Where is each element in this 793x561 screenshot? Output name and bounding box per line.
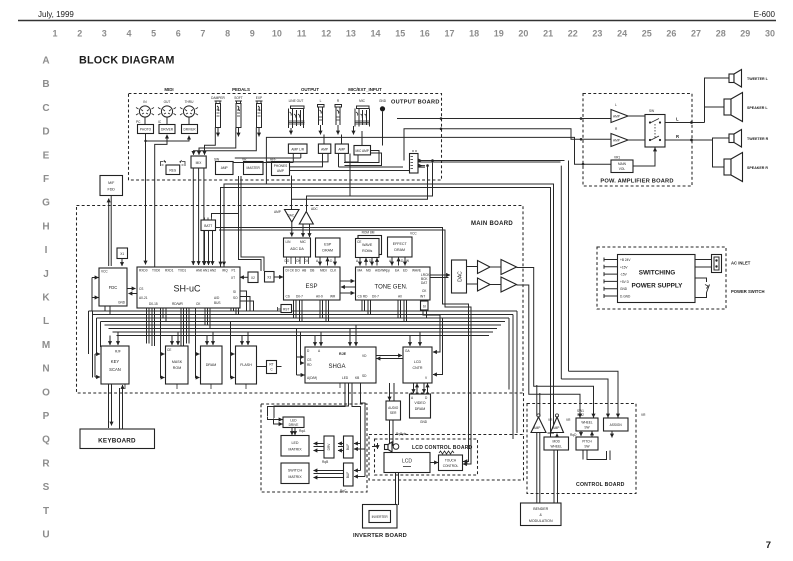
svg-text:PHONES: PHONES	[274, 164, 287, 168]
svg-text:M: M	[42, 340, 50, 351]
wire vol to switch	[633, 148, 655, 167]
svg-text:7: 7	[200, 29, 205, 39]
wire midi in down to SH-uC	[145, 134, 147, 265]
svg-text:RJE: RJE	[339, 352, 347, 356]
svg-text:D: D	[42, 127, 49, 138]
svg-text:RXD0: RXD0	[139, 269, 148, 273]
svg-text:CS RD: CS RD	[358, 295, 369, 299]
svg-text:CS: CS	[286, 295, 290, 299]
dac amp triangle 4	[501, 277, 517, 292]
svg-text:IRQ: IRQ	[222, 269, 228, 273]
bus stubs TONE GEN bottom	[362, 300, 428, 322]
bus to lcd cntr arrows	[409, 336, 411, 347]
bender modulation box	[521, 503, 562, 526]
bus left verticals	[89, 311, 101, 378]
svg-text:D0-15: D0-15	[149, 302, 158, 306]
svg-text:11: 11	[297, 29, 307, 39]
amp L triangle	[611, 103, 628, 123]
svg-text:VR1: VR1	[614, 156, 620, 160]
speaker L	[724, 93, 768, 122]
svg-text:SER: SER	[390, 411, 397, 415]
svg-text:29: 29	[740, 29, 750, 39]
svg-text:IC: IC	[158, 120, 162, 124]
wire txd up to out driver	[155, 135, 167, 267]
led drive to led matrix arrow	[291, 428, 293, 436]
lcd control board outline	[375, 439, 478, 475]
pow amplifier board outline	[583, 94, 692, 187]
dac amp triangle 1	[478, 261, 491, 274]
wire loop y184	[224, 184, 554, 433]
svg-text:6: 6	[176, 29, 181, 39]
svg-text:BENDER: BENDER	[533, 507, 548, 511]
LCD box	[384, 453, 430, 473]
wire switch out R	[665, 139, 713, 141]
volume box	[611, 156, 633, 173]
output board connector CN	[410, 151, 423, 173]
svg-text:14: 14	[370, 29, 380, 39]
svg-text:SOFT: SOFT	[234, 96, 243, 100]
svg-text:16: 16	[420, 29, 430, 39]
wire B4 right bend	[344, 151, 382, 166]
svg-text:B: B	[42, 79, 49, 90]
svg-text:BATT: BATT	[204, 224, 212, 228]
svg-text:M/F: M/F	[108, 181, 115, 185]
FDC bottom stubs	[105, 306, 110, 315]
svg-text:DI: DI	[305, 259, 308, 263]
svg-text:MIC: MIC	[300, 240, 307, 244]
svg-text:VCC: VCC	[101, 270, 108, 274]
svg-text:INVERTER BOARD: INVERTER BOARD	[353, 533, 407, 539]
svg-text:9: 9	[250, 29, 255, 39]
audio box down wires	[389, 420, 391, 450]
svg-text:MASK: MASK	[172, 360, 183, 364]
svg-text:RqB: RqB	[322, 460, 328, 464]
line amp box B2	[318, 144, 330, 153]
wire connector out 1	[418, 161, 565, 163]
svg-text:R: R	[337, 99, 340, 103]
video dram box	[410, 394, 431, 424]
bender amp triangle 1	[531, 414, 553, 433]
svg-text:VCC: VCC	[410, 232, 417, 236]
junction dot g	[426, 164, 429, 167]
svg-text:SI: SI	[423, 305, 426, 309]
svg-text:D0-7: D0-7	[372, 295, 379, 299]
svg-text:P1: P1	[232, 269, 236, 273]
svg-text:AMP: AMP	[321, 148, 328, 152]
wire speakers R pair	[712, 138, 729, 167]
svg-text:A0: A0	[398, 295, 402, 299]
svg-text:CONTROL BOARD: CONTROL BOARD	[576, 482, 625, 488]
wire jackR down to B3	[341, 135, 343, 145]
svg-text:SCAN: SCAN	[109, 367, 121, 372]
svg-text:INT: INT	[420, 295, 425, 299]
svg-text:LCD: LCD	[402, 459, 412, 465]
svg-text:OUTPUT: OUTPUT	[301, 87, 319, 92]
svg-text:LED: LED	[292, 441, 299, 445]
wire amp2 feed	[404, 129, 611, 161]
lcd cntr right feeds	[423, 310, 440, 352]
bender amp triangle 2	[551, 414, 572, 433]
svg-text:RJF: RJF	[115, 350, 121, 354]
svg-text:RXD1: RXD1	[165, 269, 174, 273]
transpose sw box	[576, 409, 598, 431]
panel right vertical feed	[354, 443, 361, 445]
key scan box lower	[340, 463, 353, 493]
svg-text:WR: WR	[330, 295, 336, 299]
svg-text:TXD1: TXD1	[178, 269, 186, 273]
psu pin stubs	[604, 258, 631, 299]
svg-text:ESP: ESP	[305, 284, 317, 290]
svg-text:AMP: AMP	[613, 139, 620, 143]
svg-text:OUTPUT BOARD: OUTPUT BOARD	[391, 100, 440, 106]
wire pedal3 to mix	[193, 128, 256, 155]
box L4	[242, 158, 263, 175]
svg-text:SPEAKER L: SPEAKER L	[747, 106, 768, 110]
svg-text:ED: ED	[403, 269, 408, 273]
svg-text:LED: LED	[342, 376, 349, 380]
bus to flash arrows	[241, 336, 243, 346]
wire T3 down	[517, 268, 594, 418]
svg-text:12: 12	[321, 29, 331, 39]
svg-text:KB: KB	[355, 376, 359, 380]
svg-text:ROM 8M: ROM 8M	[362, 231, 375, 235]
left feed mask rom	[161, 318, 165, 354]
svg-text:F: F	[43, 174, 49, 185]
LCD CNTR box	[403, 347, 432, 383]
junction dot L	[690, 121, 693, 124]
svg-text:DRIVER: DRIVER	[161, 128, 174, 132]
junction dot c	[580, 117, 583, 120]
svg-text:POWER SWITCH: POWER SWITCH	[731, 289, 765, 294]
svg-text:A/D/WRpp: A/D/WRpp	[375, 269, 390, 273]
pedal jack 2	[234, 96, 243, 137]
svg-text:PC: PC	[136, 120, 141, 124]
svg-text:SI: SI	[233, 290, 236, 294]
FLASH box	[236, 346, 257, 384]
wire y199.5	[292, 166, 428, 209]
svg-text:MIDI: MIDI	[164, 87, 173, 92]
wire bender amp2 up	[539, 393, 541, 416]
svg-text:MIDI: MIDI	[320, 269, 327, 273]
svg-text:July, 1999: July, 1999	[38, 10, 74, 19]
regulator box L1	[161, 160, 186, 175]
wire long y137	[266, 137, 398, 184]
svg-text:4: 4	[126, 29, 131, 39]
chassis screw terminal	[379, 99, 387, 146]
MIDI THRU connector J3	[180, 100, 198, 125]
shga-lcdcntr link	[376, 355, 402, 357]
keyscan-keyboard wires	[109, 384, 112, 428]
svg-text:20: 20	[518, 29, 528, 39]
svg-text:DAC: DAC	[288, 214, 295, 218]
svg-text:DAT: DAT	[421, 281, 427, 285]
panel board outline	[261, 404, 367, 492]
wire B1 bottom mesh	[233, 153, 301, 162]
svg-text:T: T	[43, 506, 49, 517]
pitch sw box	[576, 437, 598, 450]
ADC DA box	[284, 238, 311, 264]
svg-text:TWEETER R: TWEETER R	[747, 137, 769, 141]
box L5	[270, 158, 290, 176]
svg-text:D.GND: D.GND	[620, 295, 631, 299]
svg-text:24: 24	[617, 29, 627, 39]
wire amp1 feed	[397, 118, 611, 120]
svg-text:P: P	[43, 411, 50, 422]
svg-text:DRIVER: DRIVER	[183, 128, 196, 132]
svg-text:A0-21: A0-21	[139, 296, 148, 300]
svg-text:KEY: KEY	[111, 359, 120, 364]
wire FDD to FDC	[108, 199, 110, 267]
svg-text:+15V: +15V	[620, 265, 628, 269]
svg-text:VR: VR	[641, 413, 646, 417]
svg-text:SWITCH: SWITCH	[288, 469, 303, 473]
svg-text:U: U	[42, 530, 49, 541]
wire mix pins down to SH-uC	[192, 168, 194, 265]
crystal X1	[117, 248, 128, 266]
svg-text:C: C	[42, 103, 49, 114]
svg-text:E: E	[43, 150, 50, 161]
svg-text:GND: GND	[620, 287, 628, 291]
svg-text:W: W	[406, 259, 409, 263]
svg-text:RD: RD	[307, 363, 312, 367]
shga bottom to panel wires	[268, 383, 349, 418]
control board outline	[527, 404, 636, 494]
svg-text:3: 3	[102, 29, 107, 39]
svg-text:VOL: VOL	[619, 167, 626, 171]
wire mic jack to B4	[362, 131, 383, 146]
svg-text:19: 19	[494, 29, 504, 39]
junction dot f	[431, 159, 434, 162]
crystal X2	[240, 272, 258, 283]
MIDI OUT connector J2	[158, 100, 176, 125]
output board outline	[129, 94, 442, 181]
svg-text:L: L	[320, 99, 322, 103]
svg-text:AUDIO: AUDIO	[388, 406, 399, 410]
DRAM box	[201, 346, 223, 384]
svg-text:MIC/EXT_INPUT: MIC/EXT_INPUT	[348, 87, 382, 92]
dac amp triangle 3	[501, 260, 517, 275]
svg-text:28: 28	[716, 29, 726, 39]
EFFECT DRAM box	[388, 232, 418, 266]
bus to mask rom arrows	[171, 336, 173, 346]
left feed flash	[231, 322, 235, 355]
svg-text:DRAM: DRAM	[322, 249, 333, 253]
svg-text:17: 17	[444, 29, 454, 39]
vertical trunk 2	[560, 166, 562, 379]
svg-text:N: N	[42, 364, 49, 375]
svg-text:23: 23	[592, 29, 602, 39]
LED MATRIX box	[281, 436, 309, 457]
sensor box above SH-uC	[201, 214, 239, 266]
amp R triangle	[611, 127, 628, 147]
svg-text:LCD CONTROL BOARD: LCD CONTROL BOARD	[412, 445, 473, 451]
svg-text:CNTR: CNTR	[413, 366, 423, 370]
vertical trunk 1	[568, 161, 570, 372]
left feed dram	[196, 322, 200, 355]
svg-text:R: R	[42, 458, 50, 469]
lcd bottom to inverter wires	[396, 473, 399, 506]
bus to keyscan arrows	[109, 336, 111, 346]
line amp box B3	[335, 144, 348, 153]
svg-text:MASTER: MASTER	[247, 166, 261, 170]
svg-text:H: H	[42, 221, 49, 232]
svg-text:SW: SW	[584, 426, 589, 430]
svg-text:DRAM: DRAM	[394, 248, 405, 252]
MASK ROM box	[166, 346, 189, 384]
beeper speaker icon	[372, 442, 399, 452]
wire B2 B3 bottom to L rows	[266, 153, 345, 167]
svg-text:A: A	[316, 259, 319, 263]
wire vol feed	[398, 137, 611, 164]
svg-text:5: 5	[151, 29, 156, 39]
svg-text:DRV: DRV	[327, 443, 331, 451]
svg-text:WAVE: WAVE	[362, 243, 373, 247]
svg-text:G: G	[42, 198, 50, 209]
svg-text:AMP: AMP	[534, 426, 541, 430]
bus stubs from SH-uC bottom	[147, 308, 239, 346]
svg-text:X3: X3	[267, 276, 271, 280]
svg-text:AMP: AMP	[613, 115, 620, 119]
buffer box right of flash	[257, 361, 282, 374]
svg-text:MD: MD	[366, 269, 372, 273]
ac inlet connector	[712, 255, 751, 273]
junction dot b	[440, 128, 443, 131]
panel feed arrows into led drive	[267, 417, 283, 420]
bus right verticals	[509, 311, 517, 439]
FDC box	[99, 268, 127, 306]
svg-text:GND: GND	[420, 420, 428, 424]
svg-text:TXD0: TXD0	[152, 269, 160, 273]
control board internal wires	[580, 431, 582, 436]
svg-text:SH-uC: SH-uC	[173, 284, 201, 294]
svg-text:SD: SD	[362, 374, 367, 378]
svg-text:CS: CS	[139, 287, 143, 291]
svg-text:CE: CE	[357, 240, 361, 244]
bender wires up	[537, 433, 540, 504]
SH-uC right wires	[240, 291, 254, 312]
svg-text:A0-9: A0-9	[316, 295, 323, 299]
SWITCH MATRIX box	[281, 463, 309, 484]
svg-text:DRIVE: DRIVE	[289, 423, 299, 427]
wire vr to amp2	[556, 434, 558, 437]
led driver col box	[322, 436, 334, 464]
touch control resistor row	[439, 451, 454, 454]
svg-text:K: K	[42, 293, 50, 304]
svg-text:MAIN BOARD: MAIN BOARD	[471, 221, 513, 227]
svg-text:LIN: LIN	[286, 240, 292, 244]
headphone inverting amp triangle	[274, 176, 299, 237]
svg-text:10: 10	[272, 29, 282, 39]
MIDI IN photocoupler box	[136, 120, 154, 134]
svg-text:AMP: AMP	[277, 169, 284, 173]
svg-text:ADC: ADC	[311, 207, 318, 211]
svg-text:ROM: ROM	[173, 366, 181, 370]
svg-text:SW: SW	[584, 445, 589, 449]
output stereo jack L/MONO	[289, 99, 305, 135]
wire amp outs to switch	[628, 116, 645, 140]
svg-text:OUT: OUT	[164, 100, 171, 104]
svg-text:TOUCH: TOUCH	[445, 459, 457, 463]
junction dot R	[690, 139, 693, 142]
svg-text:R: R	[676, 134, 679, 139]
svg-text:D: D	[401, 259, 404, 263]
svg-text:AMP: AMP	[221, 166, 228, 170]
SH-uC top loop arrows	[220, 188, 222, 266]
svg-text:VR: VR	[548, 418, 553, 422]
svg-text:R: R	[615, 127, 618, 131]
svg-text:ADC DA: ADC DA	[290, 247, 304, 251]
wire mesh to connector	[289, 155, 410, 171]
svg-text:POW. AMPLIFIER BOARD: POW. AMPLIFIER BOARD	[600, 179, 673, 185]
svg-text:BUF: BUF	[346, 444, 350, 450]
ESP DRAM box	[316, 238, 341, 266]
wire speakers L pair	[705, 78, 730, 123]
svg-text:VR: VR	[566, 418, 571, 422]
svg-text:E-600: E-600	[754, 10, 776, 19]
svg-text:L: L	[676, 117, 679, 122]
svg-text:7: 7	[766, 540, 771, 551]
lcd outer dashed	[369, 435, 524, 481]
wire pedal2 to mix	[199, 128, 236, 155]
wire TONEGEN to DAC	[430, 274, 450, 276]
inverter board	[363, 505, 398, 529]
serial buffer box below tone gen	[421, 300, 429, 310]
svg-text:SW: SW	[214, 158, 219, 162]
svg-text:L: L	[615, 103, 617, 107]
dac amp triangle 2	[478, 278, 491, 291]
svg-text:POWER SUPPLY: POWER SUPPLY	[632, 283, 684, 290]
svg-text:27: 27	[691, 29, 701, 39]
svg-text:WAVE: WAVE	[412, 269, 421, 273]
svg-text:LINE OUT: LINE OUT	[289, 99, 304, 103]
junction dot midi	[144, 140, 146, 142]
svg-text:MATRIX: MATRIX	[288, 475, 302, 479]
audio serial box	[386, 401, 401, 420]
tweeter L	[729, 70, 769, 88]
svg-text:8: 8	[225, 29, 230, 39]
svg-text:XT: XT	[231, 276, 235, 280]
svg-text:RqC: RqC	[340, 489, 347, 493]
bus lines horizontal	[89, 311, 518, 336]
TOUCH CONTROL box	[439, 455, 463, 471]
svg-text:TWEETER L: TWEETER L	[747, 77, 769, 81]
svg-text:22: 22	[568, 29, 578, 39]
svg-text:PITCH: PITCH	[582, 440, 592, 444]
svg-text:26: 26	[666, 29, 676, 39]
svg-text:AMP: AMP	[553, 426, 560, 430]
svg-text:IN: IN	[143, 100, 147, 104]
svg-text:SO: SO	[233, 296, 238, 300]
svg-text:SPEAKER R: SPEAKER R	[747, 166, 768, 170]
svg-text:SW: SW	[649, 109, 654, 113]
svg-text:BLOCK DIAGRAM: BLOCK DIAGRAM	[79, 55, 175, 67]
pedal jack 3	[256, 96, 263, 137]
mixer box L2	[191, 156, 206, 168]
svg-text:ASSIGN: ASSIGN	[610, 423, 623, 427]
wire drop x238 to X3	[239, 176, 262, 271]
wire bus y227	[216, 228, 469, 462]
svg-text:CE: CE	[167, 348, 171, 352]
svg-text:21: 21	[543, 29, 553, 39]
svg-text:ROMs: ROMs	[362, 249, 372, 253]
svg-text:25: 25	[642, 29, 652, 39]
mic preamp triangle	[299, 207, 318, 237]
svg-text:+5V D: +5V D	[620, 280, 630, 284]
reset box below ESP	[278, 305, 292, 313]
svg-text:FLASH: FLASH	[240, 363, 252, 367]
modulation vr box	[544, 433, 577, 450]
svg-text:DB: DB	[310, 269, 314, 273]
